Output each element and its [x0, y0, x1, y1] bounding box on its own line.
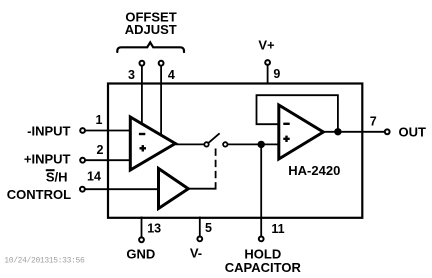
- buffer A2 (S/H control buffer): [159, 169, 189, 209]
- IC package outline U1: [108, 84, 362, 218]
- svg-text:OUT: OUT: [399, 125, 427, 140]
- switch S1 left contact: [204, 142, 208, 146]
- terminal pin 1: [80, 128, 85, 133]
- wire pin 2 to op-amp A1 non-inverting input: [85, 159, 131, 161]
- svg-text:9: 9: [273, 67, 280, 81]
- svg-text:CAPACITOR: CAPACITOR: [225, 260, 302, 275]
- svg-text:HA-2420: HA-2420: [288, 163, 340, 178]
- terminal pin 11: [259, 237, 264, 242]
- terminal pin 3: [140, 61, 145, 66]
- junction node hold cap: [258, 141, 265, 148]
- switch S1 blade: [209, 133, 220, 142]
- terminal pin 9: [265, 60, 270, 65]
- svg-text:5: 5: [205, 221, 212, 235]
- svg-text:14: 14: [87, 169, 101, 183]
- svg-text:3: 3: [128, 68, 135, 82]
- wire junction down to pin 11: [260, 144, 262, 236]
- junction node feedback: [334, 128, 341, 135]
- svg-text:V-: V-: [190, 246, 202, 261]
- terminal pin 14: [80, 187, 85, 192]
- svg-text:1: 1: [96, 113, 103, 127]
- terminal pin 7: [385, 129, 390, 134]
- svg-text:11: 11: [271, 222, 284, 236]
- svg-text:S/H: S/H: [46, 170, 68, 185]
- svg-text:10/24/201315:33:56: 10/24/201315:33:56: [4, 256, 85, 265]
- terminal pin 4: [159, 61, 164, 66]
- wire pin 14 to buffer A2 input: [85, 188, 160, 190]
- svg-text:ADJUST: ADJUST: [125, 22, 177, 37]
- wire pin 13: [141, 217, 143, 238]
- brace over offset adjust pins: [117, 42, 184, 52]
- A3 plus sign: [283, 136, 289, 142]
- svg-text:7: 7: [370, 115, 377, 129]
- svg-text:4: 4: [168, 68, 175, 82]
- wire A3 output to pin 7: [323, 131, 385, 133]
- wire pin 1 to op-amp A1 inverting input: [85, 130, 131, 132]
- switch S1 right contact: [223, 142, 227, 146]
- svg-text:GND: GND: [126, 247, 155, 262]
- svg-text:2: 2: [97, 143, 104, 157]
- terminal pin 13: [139, 237, 144, 242]
- wire pin 5: [199, 217, 201, 237]
- svg-text:13: 13: [147, 222, 161, 236]
- svg-text:-INPUT: -INPUT: [27, 124, 70, 139]
- svg-text:CONTROL: CONTROL: [7, 187, 71, 202]
- wire switch to op-amp A3 non-inverting input: [228, 143, 280, 145]
- feedback wire A3 output to inverting input: [257, 95, 338, 132]
- overline bar over S: [46, 169, 55, 171]
- terminal pin 2: [80, 158, 85, 163]
- wire buffer A2 output: [188, 188, 216, 190]
- op-amp A1 input stage: [130, 117, 175, 170]
- A3 minus sign: [283, 123, 289, 125]
- wire pin 4 to op-amp A1: [160, 66, 162, 137]
- terminal pin 5: [197, 237, 202, 242]
- dashed actuator line from switch to buffer: [215, 149, 217, 189]
- svg-text:+INPUT: +INPUT: [24, 151, 71, 166]
- wire pin 3 to op-amp A1: [141, 66, 143, 125]
- op-amp A3 output stage: [279, 105, 324, 159]
- svg-text:V+: V+: [258, 38, 275, 53]
- A1 minus sign: [139, 133, 145, 135]
- A1 plus sign: [140, 145, 147, 151]
- wire pin 9 to package: [267, 65, 269, 85]
- wire A1 output to switch: [175, 143, 204, 145]
